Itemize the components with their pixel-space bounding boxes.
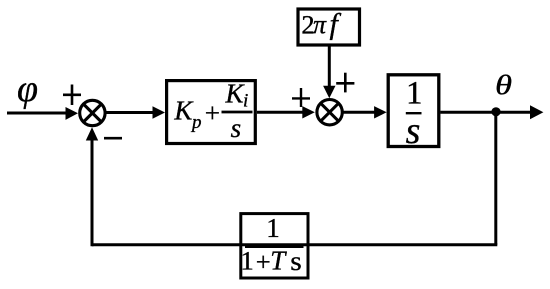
block integrator 1/s <box>388 75 439 152</box>
block low-pass filter 1/(1+Ts) <box>241 213 309 278</box>
summing junction S1 <box>80 100 105 125</box>
wire PI block to summing junction S2 <box>257 106 315 118</box>
svg-text:θ: θ <box>495 71 512 101</box>
svg-text:1: 1 <box>241 246 254 276</box>
wire feedback up into summing junction S1 <box>86 127 98 246</box>
wire input to summing junction S1 <box>7 107 78 120</box>
svg-text:+: + <box>256 246 271 276</box>
wire 2pi-f block down to summing junction S2 <box>323 45 335 98</box>
summing junction S2 <box>317 100 342 125</box>
svg-text:+: + <box>205 98 220 128</box>
wire S1 to PI block <box>105 106 165 118</box>
svg-text:1: 1 <box>266 213 280 243</box>
svg-text:1: 1 <box>406 76 423 112</box>
svg-text:φ: φ <box>17 68 38 110</box>
svg-text:s: s <box>231 113 242 143</box>
svg-text:s: s <box>290 246 302 276</box>
wire S2 to integrator block <box>344 106 387 118</box>
plus sign at summing junction S1 <box>63 85 81 106</box>
wire feedback bottom horizontal <box>92 243 497 246</box>
plus sign at summing junction S2 top <box>336 73 354 93</box>
wire integrator to output <box>441 105 544 119</box>
svg-text:s: s <box>406 110 421 152</box>
block PI controller Kp+Ki/s U1 <box>167 79 256 144</box>
block 2pi-f <box>298 7 360 45</box>
svg-text:T: T <box>270 246 287 276</box>
wire feedback vertical down from output node <box>494 112 497 245</box>
minus sign at summing junction S1 <box>104 137 122 140</box>
svg-text:p: p <box>190 112 202 133</box>
plus sign at summing junction S2 left <box>292 88 310 107</box>
svg-text:f: f <box>330 7 342 40</box>
svg-text:i: i <box>243 90 248 111</box>
svg-text:π: π <box>313 10 327 39</box>
node output junction dot <box>491 107 500 116</box>
